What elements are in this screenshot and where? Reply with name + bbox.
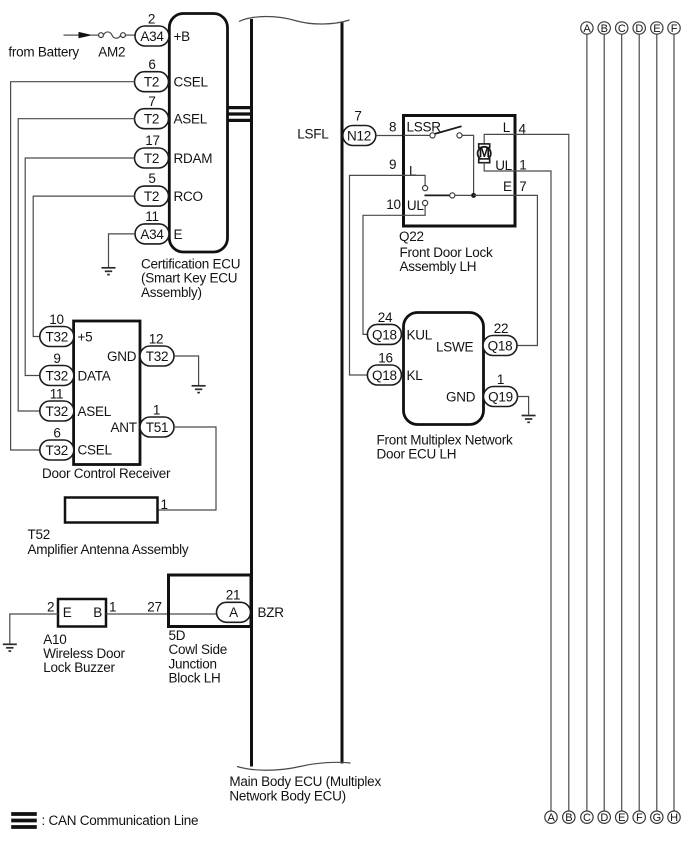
motor M1 bottom cap — [479, 159, 490, 163]
CAN communication line to Main Body ECU — [227, 106, 252, 109]
wire D to F — [638, 34, 640, 811]
wire pin9 to KL run — [350, 175, 404, 375]
switch lock contact L — [423, 186, 428, 191]
svg-text:A10: A10 — [43, 632, 66, 647]
svg-text:8: 8 — [389, 120, 396, 135]
svg-text:Network Body ECU): Network Body ECU) — [229, 788, 346, 803]
node H bottom — [668, 811, 680, 823]
svg-text:2: 2 — [148, 11, 155, 26]
node G bottom — [651, 811, 663, 823]
wire lower contact to junction — [455, 194, 471, 196]
svg-text:Cowl Side: Cowl Side — [169, 642, 228, 657]
connector Q18 pin 16 — [367, 365, 401, 385]
wire C to E — [621, 34, 623, 811]
wire from battery feed — [64, 34, 80, 36]
connector A34 pin 2 — [135, 26, 169, 46]
wire pin E7 to LSWE — [515, 195, 537, 345]
svg-text:M: M — [479, 145, 490, 160]
svg-text:E: E — [653, 23, 660, 35]
svg-text:E: E — [174, 227, 183, 242]
svg-text:Wireless Door: Wireless Door — [43, 646, 125, 661]
svg-text:1: 1 — [153, 402, 160, 417]
wire junction to pin E — [474, 194, 515, 196]
ground G2 — [192, 385, 206, 387]
connector T2 pin 5 — [135, 186, 169, 206]
svg-text:C: C — [583, 812, 591, 824]
component T52 Amplifier Antenna Assembly box — [65, 498, 158, 523]
svg-text:Q18: Q18 — [372, 368, 397, 383]
connector T2 pin 6 — [135, 72, 169, 92]
node A bottom — [545, 811, 557, 823]
svg-text:5D: 5D — [169, 628, 186, 643]
ECU U1 Certification ECU box — [169, 14, 227, 253]
svg-text:2: 2 — [47, 600, 54, 615]
motor M1 body — [478, 147, 491, 160]
svg-text:21: 21 — [226, 588, 241, 603]
fuse AM2 left terminal — [99, 33, 104, 38]
svg-text:16: 16 — [378, 350, 393, 365]
wire buzzer to ground — [10, 614, 58, 644]
Main Body ECU right edge — [341, 23, 344, 764]
svg-text:F: F — [671, 23, 678, 35]
wire pin L4 to node B — [515, 134, 569, 811]
svg-text:A: A — [547, 812, 555, 824]
svg-text:UL: UL — [407, 198, 424, 213]
wire LSSR throw to junction — [462, 135, 474, 193]
node E top — [651, 22, 663, 34]
svg-text:1: 1 — [519, 158, 526, 173]
svg-text:T2: T2 — [144, 151, 159, 166]
svg-text:12: 12 — [149, 331, 164, 346]
svg-text:Main Body ECU (Multiplex: Main Body ECU (Multiplex — [229, 774, 381, 789]
connector A34 pin 11 — [135, 224, 169, 244]
svg-text:: CAN Communication Line: : CAN Communication Line — [42, 813, 199, 828]
node D top — [633, 22, 645, 34]
svg-text:1: 1 — [109, 600, 116, 615]
node F bottom — [633, 811, 645, 823]
svg-text:E: E — [63, 605, 72, 620]
svg-text:+B: +B — [174, 29, 191, 44]
svg-text:Front Multiplex Network: Front Multiplex Network — [377, 432, 514, 447]
wire motor to pin L — [484, 134, 515, 144]
svg-text:LSSR: LSSR — [407, 119, 442, 134]
svg-text:BZR: BZR — [258, 605, 285, 620]
svg-text:C: C — [618, 23, 626, 35]
wire E to G — [656, 34, 658, 811]
svg-text:7: 7 — [148, 94, 155, 109]
svg-text:B: B — [565, 812, 572, 824]
junction dot E node — [471, 193, 476, 198]
svg-text:Amplifier Antenna Assembly: Amplifier Antenna Assembly — [28, 542, 189, 557]
svg-text:T32: T32 — [146, 349, 169, 364]
svg-text:GND: GND — [446, 389, 476, 404]
Main Body ECU torn top edge — [239, 17, 350, 25]
wire A to C — [586, 34, 588, 811]
ground G3 — [3, 643, 17, 645]
junction block 5D box — [169, 575, 252, 627]
svg-text:F: F — [636, 812, 643, 824]
svg-text:UL: UL — [495, 158, 512, 173]
wire Q19 to ground — [518, 397, 529, 415]
wire ANT to amplifier antenna — [158, 427, 217, 510]
svg-text:T32: T32 — [46, 443, 69, 458]
svg-text:A34: A34 — [140, 29, 164, 44]
node E bottom — [616, 811, 628, 823]
wire ASEL run — [18, 119, 134, 411]
component A10 Wireless Door Lock Buzzer box — [58, 599, 106, 627]
svg-text:6: 6 — [53, 425, 60, 440]
svg-text:CSEL: CSEL — [174, 75, 209, 90]
svg-text:RCO: RCO — [174, 189, 203, 204]
svg-text:T2: T2 — [144, 112, 159, 127]
connector T2 pin 17 — [135, 148, 169, 168]
svg-text:Certification ECU: Certification ECU — [141, 257, 240, 272]
connector N12 pin 7 — [343, 126, 376, 146]
svg-text:B: B — [93, 605, 102, 620]
svg-text:Front Door Lock: Front Door Lock — [400, 245, 494, 260]
connector T32 pin 12 GND — [140, 346, 174, 366]
wire pin10 to KUL run — [363, 215, 404, 334]
ECU U2 Door Control Receiver box — [74, 321, 140, 465]
wire buzzer to junction block BZR — [106, 613, 217, 615]
ground G1 — [102, 267, 116, 269]
svg-text:ASEL: ASEL — [78, 404, 112, 419]
wire E to ground — [109, 234, 136, 267]
wire GND to ground — [174, 356, 199, 385]
connector A pin 21 BZR — [217, 602, 251, 622]
svg-text:B: B — [601, 23, 608, 35]
svg-text:17: 17 — [145, 133, 160, 148]
svg-text:DATA: DATA — [78, 368, 111, 383]
wire F to H — [673, 34, 675, 811]
svg-text:ANT: ANT — [111, 420, 137, 435]
wire CSEL run — [11, 82, 135, 450]
arrow battery direction — [79, 32, 93, 38]
svg-text:Q18: Q18 — [372, 327, 397, 342]
node C top — [616, 22, 628, 34]
connector T32 pin 9 — [40, 366, 74, 386]
svg-text:AM2: AM2 — [98, 44, 125, 59]
switch arm lower — [425, 194, 450, 196]
node C bottom — [581, 811, 593, 823]
svg-text:ASEL: ASEL — [174, 112, 208, 127]
connector T32 pin 10 — [40, 327, 74, 347]
connector T51 pin 1 ANT — [140, 417, 174, 437]
node D bottom — [598, 811, 610, 823]
svg-text:(Smart Key ECU: (Smart Key ECU — [141, 271, 237, 286]
wire RDAM to DATA run — [25, 158, 134, 376]
svg-text:Door ECU LH: Door ECU LH — [377, 447, 457, 462]
Main Body ECU torn bottom edge — [237, 762, 351, 770]
svg-text:Block LH: Block LH — [169, 671, 221, 686]
svg-text:T2: T2 — [144, 189, 159, 204]
svg-text:T52: T52 — [28, 527, 51, 542]
svg-text:LSFL: LSFL — [297, 126, 329, 141]
motor M1 top cap — [479, 144, 490, 148]
svg-text:9: 9 — [53, 351, 60, 366]
switch lower common contact — [450, 193, 455, 198]
svg-text:G: G — [653, 812, 661, 824]
svg-text:CSEL: CSEL — [78, 442, 113, 457]
wire fuse to +B connector — [125, 34, 135, 36]
svg-text:from Battery: from Battery — [8, 44, 79, 59]
svg-text:A: A — [583, 23, 591, 35]
switch LSSR throw contact — [457, 133, 462, 138]
svg-text:KL: KL — [407, 368, 424, 383]
svg-text:RDAM: RDAM — [174, 151, 213, 166]
node F top — [668, 22, 680, 34]
svg-text:T32: T32 — [46, 404, 69, 419]
svg-text:1: 1 — [161, 497, 168, 512]
wire pin UL1 to node A — [515, 171, 551, 811]
svg-text:7: 7 — [519, 179, 526, 194]
ECU U3 Main Body ECU left edge — [250, 19, 253, 767]
wire B to D — [603, 34, 605, 811]
svg-text:KUL: KUL — [407, 327, 433, 342]
svg-text:L: L — [409, 164, 417, 179]
svg-text:E: E — [618, 812, 625, 824]
svg-text:LSWE: LSWE — [436, 339, 474, 354]
node B bottom — [563, 811, 575, 823]
wire N12 to Q22 pin 8 — [376, 135, 404, 137]
svg-text:T2: T2 — [144, 75, 159, 90]
svg-text:A34: A34 — [140, 227, 164, 242]
wire pin9 L to lock contact — [404, 175, 426, 185]
svg-text:6: 6 — [148, 57, 155, 72]
svg-text:+5: +5 — [78, 329, 93, 344]
svg-text:Assembly): Assembly) — [141, 285, 202, 300]
connector Q18 pin 24 — [367, 324, 401, 344]
svg-text:E: E — [503, 179, 512, 194]
component Q22 Front Door Lock Assembly LH box — [404, 116, 516, 227]
svg-text:24: 24 — [378, 310, 393, 325]
connector T32 pin 6 — [40, 440, 74, 460]
legend CAN communication line symbol — [11, 812, 37, 816]
svg-text:Q22: Q22 — [399, 229, 424, 244]
svg-text:10: 10 — [49, 312, 64, 327]
svg-text:T51: T51 — [146, 420, 169, 435]
wire arrow to fuse — [90, 34, 99, 36]
connector T2 pin 7 — [135, 109, 169, 129]
svg-text:1: 1 — [497, 372, 504, 387]
svg-text:Junction: Junction — [169, 656, 217, 671]
wire pin8 to LSSR contact — [404, 134, 430, 136]
fuse AM2 right terminal — [121, 33, 126, 38]
ground G4 — [522, 415, 536, 417]
svg-text:H: H — [670, 812, 678, 824]
svg-text:GND: GND — [107, 349, 137, 364]
svg-text:5: 5 — [148, 171, 155, 186]
svg-text:10: 10 — [386, 197, 401, 212]
svg-text:22: 22 — [494, 321, 509, 336]
svg-text:Q18: Q18 — [488, 338, 513, 353]
svg-text:Door Control Receiver: Door Control Receiver — [42, 466, 171, 481]
svg-text:T32: T32 — [46, 368, 69, 383]
connector T32 pin 11 — [40, 401, 74, 421]
svg-text:D: D — [600, 812, 608, 824]
svg-text:Lock Buzzer: Lock Buzzer — [43, 660, 115, 675]
svg-text:Assembly LH: Assembly LH — [400, 259, 477, 274]
connector Q19 pin 1 GND — [484, 387, 518, 407]
svg-text:A: A — [229, 605, 238, 620]
switch LSSR common contact — [430, 133, 435, 138]
wire pin10 UL to unlock contact — [404, 206, 426, 216]
node B top — [598, 22, 610, 34]
node A top — [581, 22, 593, 34]
svg-text:11: 11 — [145, 209, 159, 224]
svg-text:D: D — [635, 23, 643, 35]
svg-text:9: 9 — [389, 157, 396, 172]
wire motor to pin UL — [484, 162, 515, 171]
svg-text:Q19: Q19 — [488, 389, 513, 404]
connector Q18 pin 22 LSWE — [483, 336, 517, 356]
wire RCO to +5 run — [33, 196, 134, 336]
switch unlock contact UL — [423, 200, 428, 205]
fuse AM2 element — [103, 32, 120, 38]
svg-text:T32: T32 — [46, 329, 69, 344]
svg-text:N12: N12 — [347, 128, 371, 143]
svg-text:L: L — [503, 120, 511, 135]
svg-text:11: 11 — [50, 386, 64, 401]
switch LSSR arm — [435, 126, 462, 134]
svg-text:27: 27 — [147, 600, 162, 615]
svg-text:7: 7 — [354, 109, 361, 124]
ECU U4 Front Multiplex Network Door ECU LH box — [404, 313, 484, 425]
